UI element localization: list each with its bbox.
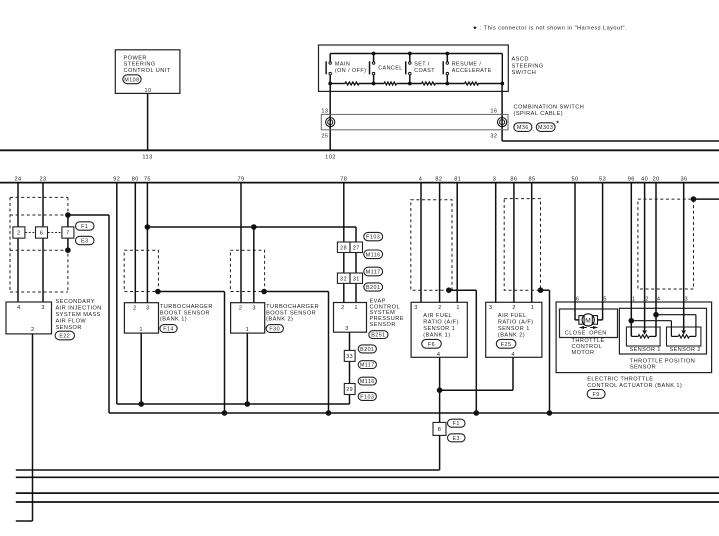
svg-text:2: 2 bbox=[645, 296, 649, 302]
svg-text:AIR FLOW: AIR FLOW bbox=[56, 319, 87, 325]
svg-text:24: 24 bbox=[14, 176, 21, 182]
svg-text:113: 113 bbox=[142, 154, 152, 160]
svg-text:36: 36 bbox=[680, 176, 687, 182]
svg-text:1: 1 bbox=[354, 305, 358, 311]
svg-text:F1: F1 bbox=[453, 421, 460, 427]
svg-text:53: 53 bbox=[599, 176, 606, 182]
svg-text:3: 3 bbox=[685, 296, 689, 302]
svg-text:2: 2 bbox=[133, 306, 137, 312]
svg-text:8: 8 bbox=[438, 427, 442, 433]
svg-text:5: 5 bbox=[603, 296, 607, 302]
svg-text:25: 25 bbox=[321, 133, 328, 139]
svg-text:CONTROL ACTUATOR (BANK 1): CONTROL ACTUATOR (BANK 1) bbox=[587, 383, 682, 389]
svg-text:B201: B201 bbox=[366, 285, 380, 291]
svg-text:M116: M116 bbox=[366, 252, 381, 258]
svg-text:102: 102 bbox=[325, 154, 336, 160]
svg-text:(BANK 2): (BANK 2) bbox=[498, 333, 525, 339]
svg-text:SENSOR: SENSOR bbox=[56, 325, 82, 331]
svg-text:AIR INJECTION: AIR INJECTION bbox=[56, 306, 102, 312]
svg-text:4: 4 bbox=[511, 352, 515, 358]
svg-text:M303: M303 bbox=[538, 125, 553, 131]
svg-text:(BANK 1): (BANK 1) bbox=[423, 333, 450, 339]
svg-text:1: 1 bbox=[632, 296, 636, 302]
svg-text:(BANK 1): (BANK 1) bbox=[160, 317, 187, 323]
svg-text:16: 16 bbox=[490, 109, 497, 115]
svg-text:28: 28 bbox=[340, 246, 347, 252]
svg-text:1: 1 bbox=[531, 305, 535, 311]
svg-text:SENSOR 1: SENSOR 1 bbox=[630, 347, 661, 353]
svg-text:SENSOR 1: SENSOR 1 bbox=[498, 326, 530, 332]
svg-text:F1: F1 bbox=[81, 224, 88, 230]
svg-text:6: 6 bbox=[40, 231, 44, 237]
svg-text:(SPIRAL CABLE): (SPIRAL CABLE) bbox=[514, 111, 564, 117]
svg-text:M117: M117 bbox=[366, 270, 381, 276]
svg-text:RATIO (A/F): RATIO (A/F) bbox=[423, 320, 459, 326]
svg-text:78: 78 bbox=[340, 176, 347, 182]
svg-text:★: ★ bbox=[556, 119, 561, 124]
svg-text:82: 82 bbox=[435, 176, 442, 182]
svg-text:STEERING: STEERING bbox=[124, 62, 156, 68]
svg-text:OPEN: OPEN bbox=[589, 331, 606, 337]
svg-text:SYSTEM MASS: SYSTEM MASS bbox=[56, 312, 101, 318]
svg-text:3: 3 bbox=[345, 326, 349, 332]
svg-text:32: 32 bbox=[490, 133, 497, 139]
svg-text:M: M bbox=[585, 317, 591, 324]
svg-text:F6: F6 bbox=[428, 342, 435, 348]
svg-text:1: 1 bbox=[456, 305, 460, 311]
svg-text:4: 4 bbox=[17, 305, 21, 311]
svg-text:BOOST SENSOR: BOOST SENSOR bbox=[266, 310, 316, 316]
svg-text:(ON / OFF): (ON / OFF) bbox=[335, 68, 366, 74]
svg-text:10: 10 bbox=[144, 88, 151, 94]
svg-text:B251: B251 bbox=[371, 333, 385, 339]
svg-text:85: 85 bbox=[528, 176, 535, 182]
svg-text:79: 79 bbox=[237, 176, 244, 182]
svg-text:SENSOR 1: SENSOR 1 bbox=[423, 326, 455, 332]
svg-text:B201: B201 bbox=[360, 347, 374, 353]
svg-text:2: 2 bbox=[17, 231, 21, 237]
svg-text:31: 31 bbox=[353, 277, 360, 283]
svg-text:TURBOCHARGER: TURBOCHARGER bbox=[160, 304, 213, 310]
svg-text:F30: F30 bbox=[269, 327, 280, 333]
svg-text:THROTTLE POSITION: THROTTLE POSITION bbox=[630, 358, 695, 364]
svg-text:3: 3 bbox=[146, 306, 150, 312]
svg-text:ASCD: ASCD bbox=[512, 57, 529, 63]
svg-text:CLOSE: CLOSE bbox=[565, 331, 586, 337]
svg-text:32: 32 bbox=[340, 277, 347, 283]
svg-text:AIR FUEL: AIR FUEL bbox=[423, 313, 452, 319]
svg-text:F103: F103 bbox=[366, 235, 380, 241]
svg-text:SENSOR 2: SENSOR 2 bbox=[670, 347, 701, 353]
svg-text:3: 3 bbox=[252, 306, 256, 312]
svg-text:M117: M117 bbox=[360, 363, 375, 369]
svg-text:6: 6 bbox=[576, 296, 580, 302]
svg-text:4: 4 bbox=[419, 176, 423, 182]
svg-text:RESUME /: RESUME / bbox=[452, 61, 482, 67]
svg-text:SENSOR: SENSOR bbox=[630, 365, 656, 371]
svg-text:2: 2 bbox=[512, 305, 516, 311]
svg-text:CANCEL: CANCEL bbox=[378, 65, 403, 71]
svg-text:BOOST SENSOR: BOOST SENSOR bbox=[160, 310, 210, 316]
svg-text:POWER: POWER bbox=[124, 55, 147, 61]
svg-text:F14: F14 bbox=[163, 327, 174, 333]
svg-text:(BANK 2): (BANK 2) bbox=[266, 317, 293, 323]
svg-text:MOTOR: MOTOR bbox=[572, 350, 595, 356]
svg-text:13: 13 bbox=[321, 109, 328, 115]
svg-text:F25: F25 bbox=[501, 342, 512, 348]
svg-text:75: 75 bbox=[144, 176, 151, 182]
svg-text:SWITCH: SWITCH bbox=[512, 70, 537, 76]
svg-text:7: 7 bbox=[66, 231, 70, 237]
svg-text:3: 3 bbox=[414, 305, 418, 311]
svg-text:50: 50 bbox=[571, 176, 578, 182]
svg-text:33: 33 bbox=[346, 354, 353, 360]
svg-text:20: 20 bbox=[653, 176, 660, 182]
svg-text:27: 27 bbox=[353, 246, 360, 252]
svg-text:ACCELERATE: ACCELERATE bbox=[452, 68, 492, 74]
svg-text:1: 1 bbox=[246, 327, 250, 333]
svg-text:23: 23 bbox=[39, 176, 46, 182]
svg-text:29: 29 bbox=[346, 387, 353, 393]
svg-text:40: 40 bbox=[641, 176, 648, 182]
svg-text:2: 2 bbox=[31, 327, 35, 333]
svg-text:4: 4 bbox=[657, 296, 661, 302]
svg-text:SET /: SET / bbox=[414, 61, 430, 67]
svg-text:M36: M36 bbox=[517, 125, 529, 131]
svg-text:3: 3 bbox=[493, 176, 497, 182]
svg-text:4: 4 bbox=[437, 352, 441, 358]
svg-text:COMBINATION SWITCH: COMBINATION SWITCH bbox=[514, 105, 585, 111]
svg-text:E3: E3 bbox=[453, 436, 461, 442]
svg-text:E22: E22 bbox=[59, 334, 70, 340]
svg-text:,: , bbox=[533, 127, 535, 133]
svg-text:80: 80 bbox=[132, 176, 139, 182]
svg-text:★ : This connector is not show: ★ : This connector is not shown in "Harn… bbox=[473, 25, 627, 32]
svg-text:3: 3 bbox=[489, 305, 493, 311]
svg-text:M116: M116 bbox=[360, 379, 375, 385]
svg-text:3: 3 bbox=[41, 305, 45, 311]
svg-text:92: 92 bbox=[113, 176, 120, 182]
svg-text:AIR FUEL: AIR FUEL bbox=[498, 313, 527, 319]
svg-text:F9: F9 bbox=[593, 392, 600, 398]
svg-text:SECONDARY: SECONDARY bbox=[56, 299, 95, 305]
svg-text:MAIN: MAIN bbox=[335, 61, 350, 67]
svg-text:96: 96 bbox=[628, 176, 635, 182]
svg-text:2: 2 bbox=[341, 305, 345, 311]
svg-text:1: 1 bbox=[139, 327, 143, 333]
svg-text:F103: F103 bbox=[360, 394, 374, 400]
svg-text:81: 81 bbox=[454, 176, 461, 182]
svg-text:STEERING: STEERING bbox=[512, 63, 544, 69]
svg-text:COAST: COAST bbox=[414, 68, 435, 74]
svg-text:TURBOCHARGER: TURBOCHARGER bbox=[266, 304, 319, 310]
svg-text:2: 2 bbox=[438, 305, 442, 311]
svg-text:SENSOR: SENSOR bbox=[370, 322, 396, 328]
svg-text:M108: M108 bbox=[124, 77, 139, 83]
svg-text:2: 2 bbox=[239, 306, 243, 312]
svg-text:86: 86 bbox=[510, 176, 517, 182]
svg-text:CONTROL UNIT: CONTROL UNIT bbox=[124, 68, 171, 74]
svg-text:RATIO (A/F): RATIO (A/F) bbox=[498, 320, 534, 326]
svg-text:E3: E3 bbox=[81, 239, 89, 245]
svg-text:ELECTRIC THROTTLE: ELECTRIC THROTTLE bbox=[587, 377, 653, 383]
